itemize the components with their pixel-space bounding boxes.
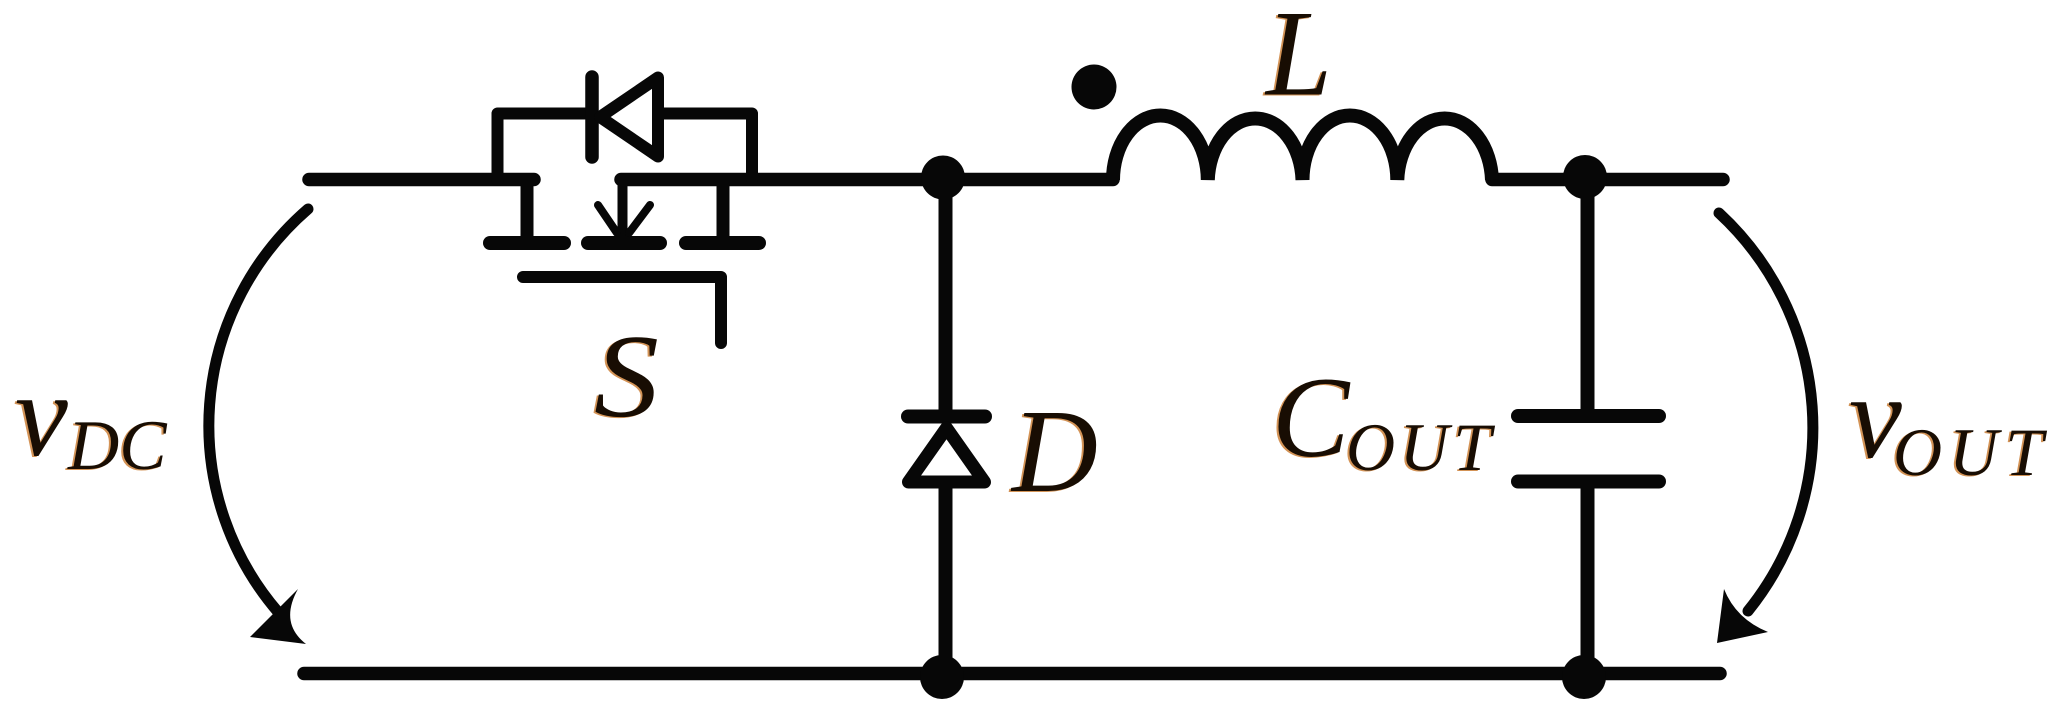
svg-text:S: S <box>594 310 659 442</box>
Q1 channel bar left <box>490 236 564 250</box>
wire cap top lead <box>1581 180 1595 412</box>
node B bottom junction dot <box>920 655 964 699</box>
node C inductor-cap top junction dot <box>1563 155 1607 199</box>
transistor Q1 (switch S) <box>490 181 759 343</box>
diode D cathode bar <box>908 410 985 424</box>
node A top junction dot <box>921 156 965 200</box>
wire bottom rail <box>304 667 1720 681</box>
wire cap bottom lead <box>1581 486 1595 674</box>
svg-text:v: v <box>15 349 68 481</box>
svg-text:D: D <box>1010 385 1098 517</box>
wire loop left <box>498 114 587 181</box>
Q1 channel bar middle <box>588 236 660 250</box>
capacitor bottom plate <box>1518 475 1659 489</box>
wire v_DC arrowhead <box>250 589 306 644</box>
capacitor top plate <box>1518 409 1659 423</box>
svg-text:DC: DC <box>67 407 168 485</box>
diode D1 freewheeling <box>908 180 985 674</box>
diode D triangle <box>909 428 985 482</box>
wire v_OUT arrowhead <box>1717 589 1768 643</box>
svg-text:C: C <box>1272 354 1351 482</box>
diode body diode cathode bar <box>585 77 599 157</box>
svg-text:OUT: OUT <box>1346 409 1496 485</box>
Q1 gate bar and lead <box>523 277 721 343</box>
diode body diode triangle <box>600 78 658 157</box>
wire loop right <box>664 114 752 181</box>
wire source lead <box>717 183 730 240</box>
wire diode bottom lead <box>939 480 953 674</box>
wire top right segment <box>1492 173 1723 187</box>
node polarity dot of L <box>1072 65 1117 110</box>
diode body-diode loop wires <box>498 114 753 181</box>
inductor L winding <box>1113 115 1492 180</box>
wire v_DC arc arrow <box>209 209 308 612</box>
Q1 channel bar right <box>686 236 759 250</box>
wire top middle segment <box>621 173 1113 187</box>
wire drain lead <box>521 183 534 240</box>
node D cap bottom junction dot <box>1562 655 1606 699</box>
wire top left segment <box>309 173 534 187</box>
svg-text:L: L <box>1264 0 1332 122</box>
wire diode top lead <box>939 180 953 410</box>
capacitor C_OUT <box>1518 180 1659 674</box>
wire v_OUT arc arrow <box>1719 213 1813 611</box>
svg-text:OUT: OUT <box>1893 414 2050 490</box>
Q1 body arrow <box>598 181 650 236</box>
